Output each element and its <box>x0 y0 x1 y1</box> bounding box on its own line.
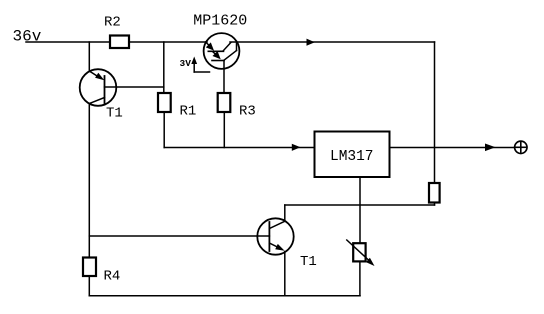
regulator U2 LM317 <box>315 132 390 178</box>
resistor R2 <box>110 36 129 49</box>
svg-text:R4: R4 <box>104 269 121 285</box>
wire T1 lower emitter down <box>284 252 286 296</box>
wire MP1620 base down to R3 <box>223 61 225 94</box>
arrow on LM317 input <box>292 144 301 151</box>
wire below RV1 <box>359 261 361 295</box>
wire top rail right segment <box>230 41 435 43</box>
svg-text:MP1620: MP1620 <box>193 12 247 29</box>
arrow on output line <box>485 144 496 152</box>
wire LM317 output line <box>390 147 514 149</box>
transistor U1 MP1620 (darlington) <box>204 33 240 69</box>
wire LM317 adj down <box>359 177 361 243</box>
wire left vertical bus <box>88 104 90 258</box>
resistor R4 <box>83 258 96 277</box>
svg-text:3V: 3V <box>180 58 192 69</box>
svg-text:R1: R1 <box>180 104 197 120</box>
variable resistor RV1 <box>347 240 375 266</box>
wire below R3 <box>223 112 225 148</box>
wire T1 base to R1 node <box>105 86 164 88</box>
wire rail drop to R1 <box>163 42 165 93</box>
svg-text:LM317: LM317 <box>330 149 374 165</box>
node 3V annotation arrow <box>191 57 209 73</box>
svg-text:36v: 36v <box>13 28 42 46</box>
resistor R5 (unlabeled right) <box>429 183 440 203</box>
wire top rail left segment <box>26 41 207 43</box>
transistor T1 (upper) <box>80 69 117 106</box>
wire bottom rail <box>89 295 360 297</box>
wire base line to T1 lower <box>89 235 269 237</box>
svg-text:R2: R2 <box>104 15 121 31</box>
wire T1 lower collector up <box>284 205 286 221</box>
resistor R3 <box>218 93 231 112</box>
transistor T1 (lower) <box>257 218 293 254</box>
terminal output plus <box>515 141 527 153</box>
wire mid horizontal feedback <box>285 204 435 206</box>
wire T1 collector drop from rail <box>88 42 90 71</box>
svg-text:T1: T1 <box>106 106 123 122</box>
svg-text:T1: T1 <box>300 254 317 270</box>
svg-text:R3: R3 <box>239 104 256 120</box>
wire LM317 input line <box>164 147 314 149</box>
wire below R4 <box>88 276 90 296</box>
wire below R1 <box>163 112 165 148</box>
arrow on top rail <box>307 39 315 46</box>
resistor R1 <box>158 93 171 112</box>
wire right drop from rail <box>434 42 436 183</box>
wire right resistor bottom stub <box>434 203 436 206</box>
